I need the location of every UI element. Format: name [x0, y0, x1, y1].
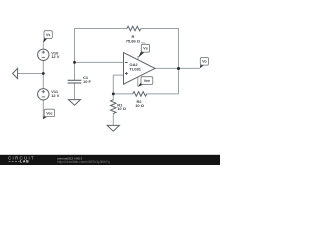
junction dot output node — [177, 67, 180, 70]
wire top feedback horizontal — [75, 28, 179, 30]
footer url line — [57, 160, 110, 164]
svg-text:10 F: 10 F — [83, 79, 92, 84]
junction dot minus node — [73, 61, 76, 64]
svg-text:10 Ω: 10 Ω — [117, 106, 127, 111]
wire R2 leads — [113, 93, 178, 95]
svg-text:http://circuitlab.com/c/897b3y: http://circuitlab.com/c/897b3y3i6b7q — [57, 160, 110, 164]
wire V11 bottom stub — [42, 100, 44, 119]
wire R1 bottom lead to ground — [112, 114, 114, 126]
ground below C1 — [69, 100, 81, 106]
svg-text:Vs: Vs — [46, 33, 51, 37]
capacitor C1 — [68, 75, 92, 84]
wire V10 top stub — [42, 43, 44, 49]
svg-text:Vee: Vee — [144, 79, 150, 83]
voltage source V10 — [38, 49, 60, 60]
wire C1 bottom to ground — [74, 83, 76, 99]
net flag Vs at V10 — [43, 31, 52, 44]
wire plus input — [113, 75, 123, 94]
op-amp OA2 TL081 — [124, 53, 156, 87]
svg-text:LAB: LAB — [20, 160, 29, 164]
svg-text:Vo: Vo — [202, 60, 207, 64]
svg-text:12 V: 12 V — [51, 93, 60, 98]
resistor R1 — [111, 100, 127, 114]
wire op-amp output — [155, 67, 200, 69]
wire supply midpoint to left ground — [18, 73, 44, 75]
wire R1 top lead — [112, 94, 114, 100]
footer CircuitLab logo — [8, 156, 35, 164]
wire right vertical feedback — [178, 28, 180, 94]
resistor R — [126, 26, 146, 44]
ground below R1 — [107, 125, 119, 131]
wire V10 bottom to V11 top — [42, 60, 44, 88]
resistor R2 — [133, 92, 147, 109]
voltage source V11 — [38, 89, 60, 100]
svg-text:TL081: TL081 — [129, 66, 141, 71]
footer credit line — [57, 156, 83, 160]
footer bar — [0, 155, 220, 165]
svg-text:75.86 Ω: 75.86 Ω — [126, 39, 141, 44]
svg-text:10 Ω: 10 Ω — [135, 103, 145, 108]
wire minus input — [75, 61, 124, 63]
junction dot supply midpoint — [42, 72, 45, 75]
net flag Vs at op-amp V+ — [138, 44, 150, 57]
svg-text:Vee: Vee — [46, 111, 52, 115]
junction dot plus node — [112, 93, 115, 96]
net flag Vo at output — [200, 57, 209, 68]
svg-text:Vs: Vs — [143, 47, 148, 51]
net flag Vee at V11 — [43, 109, 55, 119]
wire left vertical (minus node to C1) — [74, 28, 76, 80]
svg-text:12 V: 12 V — [51, 54, 60, 59]
net flag Vee at op-amp V- — [138, 77, 153, 87]
ground left (supply midpoint) — [13, 68, 18, 78]
